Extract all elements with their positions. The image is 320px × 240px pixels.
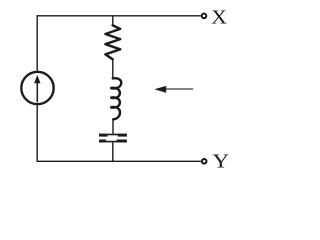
inductor L (4 loops)	[110, 78, 121, 119]
wire top horizontal	[37, 15, 201, 17]
capacitor C bottom plate thin full line	[99, 141, 127, 143]
wire between resistor and inductor	[112, 59, 114, 79]
capacitor C top plate left thick segment	[99, 134, 108, 137]
capacitor C top plate right thick segment	[118, 134, 127, 137]
wire left vertical lower	[36, 105, 38, 162]
current direction arrow (points left)	[154, 86, 193, 93]
wire between inductor and capacitor	[112, 119, 114, 134]
svg-text:Y: Y	[212, 151, 229, 173]
capacitor C top plate thin full line	[99, 134, 127, 136]
wire left vertical upper	[36, 15, 38, 71]
current source I1 arrow (points up)	[34, 75, 40, 102]
resistor R	[105, 25, 120, 59]
current source I1 circle	[21, 72, 53, 104]
terminal Y circle	[202, 159, 207, 164]
svg-text:X: X	[211, 7, 227, 29]
wire branch top lead	[112, 16, 114, 26]
terminal X circle	[202, 14, 207, 19]
wire bottom horizontal	[37, 160, 201, 162]
capacitor C bottom plate left thick segment	[99, 140, 106, 143]
wire capacitor bottom lead	[112, 142, 114, 161]
capacitor C bottom plate right thick segment	[117, 140, 127, 143]
